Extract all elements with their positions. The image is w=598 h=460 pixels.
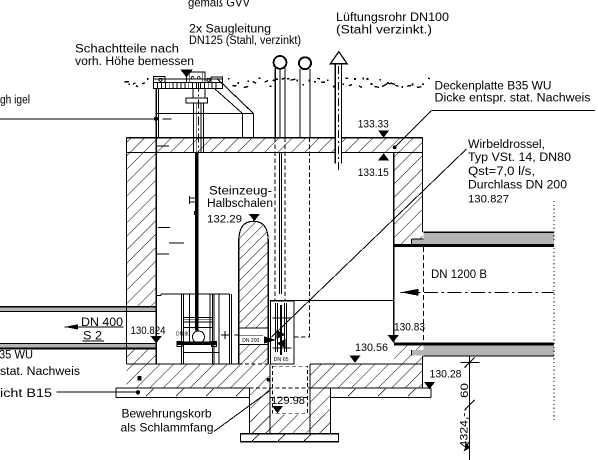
svg-text:Schachtteile nach: Schachtteile nach bbox=[75, 44, 179, 56]
svg-text:4324,-: 4324,- bbox=[459, 412, 471, 447]
svg-text:132.29: 132.29 bbox=[207, 214, 242, 226]
svg-text:Deckenplatte B35 WU: Deckenplatte B35 WU bbox=[435, 81, 552, 93]
svg-text:icht B15: icht B15 bbox=[0, 388, 52, 400]
svg-text:DN 200: DN 200 bbox=[242, 338, 259, 344]
svg-text:DN 1200 B: DN 1200 B bbox=[431, 269, 487, 281]
svg-text:vorh. Höhe bemessen: vorh. Höhe bemessen bbox=[75, 56, 194, 68]
svg-text:129.98: 129.98 bbox=[271, 395, 305, 407]
svg-text:Qst=7,0 l/s,: Qst=7,0 l/s, bbox=[468, 166, 535, 178]
svg-text:130.56: 130.56 bbox=[355, 342, 388, 354]
svg-text:Typ VSt. 14, DN80: Typ VSt. 14, DN80 bbox=[468, 152, 571, 164]
svg-text:130.827: 130.827 bbox=[468, 193, 509, 205]
svg-text:DN 400: DN 400 bbox=[81, 317, 123, 329]
svg-text:130.83: 130.83 bbox=[394, 322, 425, 334]
svg-text:als Schlammfang: als Schlammfang bbox=[121, 421, 214, 435]
svg-text:Wirbeldrossel,: Wirbeldrossel, bbox=[468, 139, 545, 151]
svg-text:130.824: 130.824 bbox=[131, 325, 166, 337]
svg-text:(Stahl verzinkt.): (Stahl verzinkt.) bbox=[336, 25, 432, 37]
svg-text:130.28: 130.28 bbox=[430, 368, 462, 380]
svg-text:gemäß GVV: gemäß GVV bbox=[188, 0, 250, 9]
svg-text:133.33: 133.33 bbox=[358, 118, 389, 130]
svg-text:stat. Nachweis: stat. Nachweis bbox=[0, 366, 80, 378]
svg-text:35 WU: 35 WU bbox=[0, 350, 33, 362]
svg-text:Lüftungsrohr DN100: Lüftungsrohr DN100 bbox=[336, 12, 449, 24]
svg-text:gh igel: gh igel bbox=[0, 95, 30, 107]
svg-text:DN 80: DN 80 bbox=[176, 332, 190, 338]
svg-text:Steinzeug-: Steinzeug- bbox=[209, 186, 272, 198]
svg-text:Bewehrungskorb: Bewehrungskorb bbox=[122, 407, 212, 421]
svg-text:DN125 (Stahl, verzinkt): DN125 (Stahl, verzinkt) bbox=[189, 35, 301, 47]
svg-text:133.15: 133.15 bbox=[358, 167, 389, 179]
svg-text:Halbschalen: Halbschalen bbox=[207, 198, 273, 210]
svg-text:2x Saugleitung: 2x Saugleitung bbox=[189, 24, 271, 36]
svg-text:Dicke entspr. stat. Nachweis: Dicke entspr. stat. Nachweis bbox=[435, 93, 591, 105]
svg-text:Durchlass DN 200: Durchlass DN 200 bbox=[468, 180, 567, 192]
svg-text:60: 60 bbox=[459, 383, 471, 398]
svg-text:S 2: S 2 bbox=[83, 331, 102, 343]
svg-text:DN 65: DN 65 bbox=[274, 357, 289, 363]
